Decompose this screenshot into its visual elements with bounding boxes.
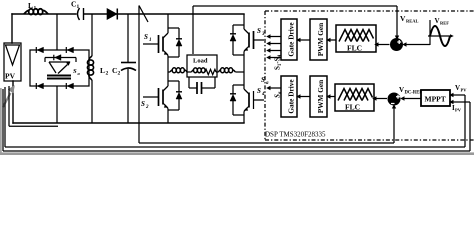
svg-text:DSP TMS320F28335: DSP TMS320F28335 (265, 131, 326, 139)
svg-text:S: S (144, 33, 148, 41)
svg-text:1: 1 (149, 38, 152, 43)
svg-text:S1-S4: S1-S4 (274, 54, 283, 70)
svg-text:PV: PV (455, 108, 462, 113)
svg-text:REF: REF (440, 21, 449, 26)
svg-text:V: V (399, 86, 404, 94)
svg-text:FLC: FLC (347, 44, 362, 53)
svg-text:V: V (455, 84, 460, 92)
svg-text:S: S (261, 76, 265, 84)
svg-text:S: S (141, 100, 145, 108)
svg-text:MPPT: MPPT (425, 95, 446, 104)
svg-text:S: S (257, 27, 261, 35)
svg-text:2: 2 (118, 71, 121, 77)
svg-text:1: 1 (34, 6, 37, 12)
svg-text:PWM Gen: PWM Gen (316, 23, 325, 56)
svg-text:L: L (28, 1, 33, 10)
svg-text:S: S (73, 68, 77, 75)
svg-text:Load: Load (193, 58, 208, 65)
svg-text:FLC: FLC (345, 103, 360, 112)
svg-text:2: 2 (145, 105, 149, 110)
svg-text:PV: PV (461, 88, 468, 93)
svg-text:S: S (257, 87, 261, 95)
svg-text:DC-REF: DC-REF (405, 91, 423, 96)
svg-text:V: V (435, 17, 440, 25)
svg-text:2: 2 (106, 71, 109, 77)
svg-text:PWM Gen: PWM Gen (316, 80, 325, 113)
svg-text:Gate Drive: Gate Drive (287, 22, 296, 57)
svg-text:1: 1 (77, 4, 80, 10)
svg-text:Gate Drive: Gate Drive (287, 79, 296, 114)
svg-text:a: a (78, 71, 81, 76)
svg-text:PV: PV (5, 72, 16, 81)
svg-text:REAL: REAL (406, 19, 419, 24)
svg-text:L: L (100, 66, 105, 75)
svg-text:a: a (266, 81, 269, 86)
